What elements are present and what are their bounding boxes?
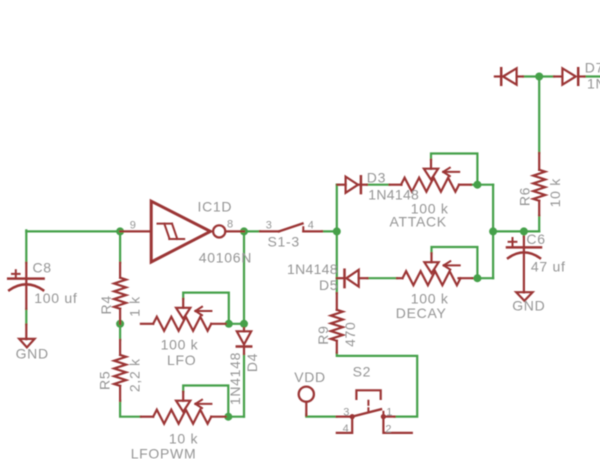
svg-text:R4: R4 bbox=[98, 295, 114, 314]
svg-text:1 k: 1 k bbox=[127, 296, 143, 317]
svg-text:DECAY: DECAY bbox=[396, 305, 447, 321]
svg-text:9: 9 bbox=[130, 219, 137, 231]
svg-text:100 uf: 100 uf bbox=[34, 290, 77, 306]
svg-text:D7: D7 bbox=[585, 59, 600, 75]
svg-text:R9: R9 bbox=[315, 325, 331, 344]
svg-text:4: 4 bbox=[343, 423, 350, 435]
svg-text:D5: D5 bbox=[319, 277, 338, 293]
svg-text:100 k: 100 k bbox=[161, 336, 199, 352]
svg-text:47 uf: 47 uf bbox=[531, 259, 566, 275]
svg-text:2: 2 bbox=[385, 424, 392, 436]
svg-text:IC1D: IC1D bbox=[198, 198, 233, 214]
svg-text:VDD: VDD bbox=[294, 369, 326, 385]
svg-text:470: 470 bbox=[342, 321, 358, 346]
svg-text:10 k: 10 k bbox=[547, 178, 563, 208]
svg-text:3: 3 bbox=[343, 406, 350, 418]
svg-text:GND: GND bbox=[16, 345, 49, 361]
svg-text:C6: C6 bbox=[526, 231, 545, 247]
svg-text:2,2 k: 2,2 k bbox=[126, 358, 142, 392]
svg-text:1N4148: 1N4148 bbox=[287, 261, 338, 277]
svg-text:1N4148: 1N4148 bbox=[227, 352, 243, 405]
svg-text:1: 1 bbox=[386, 406, 393, 418]
svg-text:C8: C8 bbox=[33, 260, 52, 276]
svg-text:R5: R5 bbox=[97, 371, 113, 390]
svg-text:3: 3 bbox=[266, 219, 273, 231]
svg-text:10 k: 10 k bbox=[169, 430, 199, 446]
svg-text:S1-3: S1-3 bbox=[268, 233, 300, 249]
svg-text:D4: D4 bbox=[244, 353, 260, 372]
svg-text:R6: R6 bbox=[516, 187, 532, 206]
svg-text:GND: GND bbox=[512, 298, 545, 314]
svg-text:1N4148: 1N4148 bbox=[587, 75, 600, 91]
svg-text:8: 8 bbox=[227, 219, 234, 231]
svg-text:D3: D3 bbox=[367, 170, 386, 186]
svg-text:S2: S2 bbox=[353, 364, 372, 380]
svg-text:40106N: 40106N bbox=[199, 250, 252, 266]
svg-text:LFOPWM: LFOPWM bbox=[131, 446, 197, 459]
svg-text:4: 4 bbox=[308, 219, 315, 231]
svg-text:ATTACK: ATTACK bbox=[390, 214, 447, 230]
svg-text:LFO: LFO bbox=[167, 352, 196, 368]
